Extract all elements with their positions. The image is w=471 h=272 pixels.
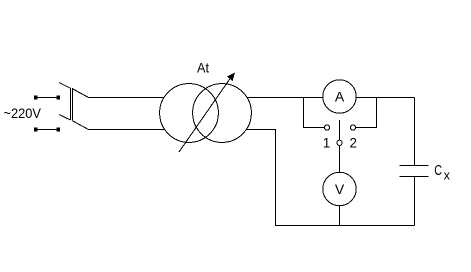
terminal line L2 (lower supply terminal) <box>35 129 59 131</box>
terminal line L1 (upper supply terminal) <box>35 97 59 99</box>
wire capacitor to bottom rail <box>414 177 416 226</box>
wire voltmeter to bottom rail <box>339 206 341 226</box>
svg-text:~220V: ~220V <box>4 105 42 121</box>
voltmeter V <box>323 172 356 205</box>
contact 1 circle <box>324 125 329 130</box>
autotransformer At secondary circle <box>193 84 252 143</box>
wire branch left vertical to contact 1 <box>304 98 325 128</box>
svg-text:1: 1 <box>323 136 331 151</box>
svg-text:2: 2 <box>349 136 357 151</box>
autotransformer At primary circle <box>160 84 219 143</box>
autotransformer adjustment arrow <box>179 77 232 153</box>
wire bottom from transformer <box>246 130 414 226</box>
plug-socket connector X1 upper prong right <box>72 89 89 98</box>
plug-socket connector X1 double bar <box>70 88 72 120</box>
plug-socket connector X1 lower prong right <box>72 121 89 130</box>
capacitor Cx bottom plate <box>400 176 429 178</box>
svg-text:x: x <box>444 169 451 183</box>
svg-text:C: C <box>434 162 442 179</box>
wire top from transformer to ammeter <box>247 97 323 99</box>
switch common contact circle <box>337 140 342 145</box>
wire from ammeter right <box>356 97 414 99</box>
wire branch right vertical to contact 2 <box>356 98 377 128</box>
wire right vertical to capacitor <box>414 98 416 166</box>
svg-text:At: At <box>197 60 209 76</box>
capacitor Cx top plate <box>400 165 429 167</box>
plug-socket connector X1 lower prong <box>59 115 71 121</box>
contact 2 circle <box>350 125 355 130</box>
wire top-left to transformer <box>89 97 165 99</box>
plug-socket connector X1 upper prong <box>59 83 71 89</box>
switch blade (neutral) <box>339 120 341 140</box>
svg-text:A: A <box>335 89 345 105</box>
svg-text:V: V <box>335 181 345 197</box>
wire common contact to voltmeter <box>339 145 341 172</box>
ammeter A <box>323 80 356 113</box>
wire bottom-left to transformer <box>89 129 165 131</box>
